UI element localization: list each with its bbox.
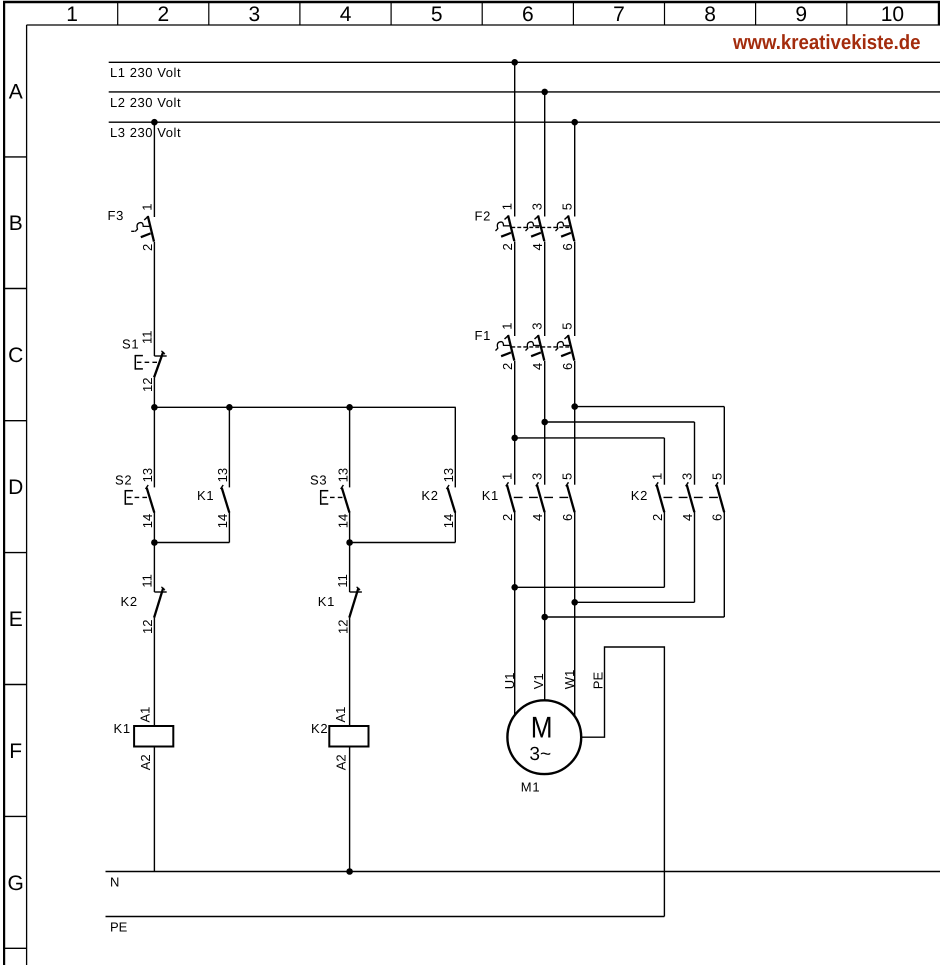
breaker F2 pole 2 — [526, 216, 545, 242]
motor M1 — [507, 700, 581, 774]
svg-text:F: F — [9, 740, 22, 763]
svg-text:1: 1 — [500, 322, 515, 329]
node W1 merge — [571, 599, 578, 606]
wire S1 to node rail — [153, 377, 155, 407]
svg-text:4: 4 — [680, 514, 695, 521]
svg-text:B: B — [9, 212, 23, 235]
svg-text:14: 14 — [441, 514, 456, 528]
svg-text:11: 11 — [335, 574, 350, 588]
wire F1 to K1 pole 2 — [544, 361, 546, 485]
wire F3 to S1 — [153, 242, 155, 356]
svg-text:7: 7 — [613, 3, 625, 26]
node phase2 branch — [541, 419, 548, 426]
row divider F/G — [5, 815, 27, 817]
wire merge rail S2/K1aux — [154, 542, 229, 544]
node phase3 branch — [571, 403, 578, 410]
actuator of S1 — [135, 355, 159, 370]
wire F1 to K1 pole 1 — [514, 361, 516, 485]
header divider 2|3 — [208, 3, 210, 26]
wire K2 pole3 down — [723, 512, 725, 617]
row divider B/C — [5, 288, 27, 290]
svg-text:F2: F2 — [475, 208, 492, 223]
svg-text:2: 2 — [500, 514, 515, 521]
NC interlock contact K1 — [349, 587, 362, 618]
wire L1 to F2 pole 1 — [514, 62, 516, 216]
wire S3 to merge node — [349, 512, 351, 542]
svg-text:K2: K2 — [121, 594, 138, 609]
border frame top — [3, 1, 940, 4]
wire control distribution rail — [154, 406, 455, 408]
row divider C/D — [5, 420, 27, 422]
node at S2 branch — [151, 404, 158, 411]
node K2 coil on N rail — [346, 868, 353, 875]
row-letter column rule — [26, 25, 28, 965]
svg-text:PE: PE — [110, 920, 128, 935]
main contact K1 pole 3 — [566, 482, 575, 512]
svg-text:www.kreativekiste.de: www.kreativekiste.de — [732, 31, 920, 54]
wire interlock to K2 coil — [349, 618, 351, 726]
svg-text:A1: A1 — [138, 707, 153, 723]
wire rail to K2 aux contact — [454, 407, 456, 487]
wire rail L2 — [109, 91, 940, 93]
svg-text:A: A — [9, 81, 23, 104]
wire K1 coil to N — [153, 747, 155, 872]
header divider 3|4 — [299, 3, 301, 26]
wire K2 pole2 down — [694, 512, 696, 602]
svg-text:2: 2 — [500, 243, 515, 250]
svg-text:M: M — [531, 712, 553, 745]
svg-text:2: 2 — [140, 244, 155, 251]
header divider 6|7 — [572, 3, 574, 26]
node S3/K2aux merge — [346, 539, 353, 546]
svg-text:K1: K1 — [197, 488, 214, 503]
NO pushbutton S2 (start K1) — [146, 485, 155, 513]
svg-text:10: 10 — [881, 3, 904, 26]
node phase1 branch — [511, 435, 518, 442]
svg-text:14: 14 — [335, 514, 350, 528]
wire rail to S2 — [153, 407, 155, 487]
svg-text:K2: K2 — [311, 721, 328, 736]
wire K1 aux down — [228, 512, 230, 542]
node U1 merge — [511, 584, 518, 591]
wire interlock to K1 coil — [153, 618, 155, 726]
row divider A/B — [5, 156, 27, 158]
svg-text:8: 8 — [704, 3, 716, 26]
svg-text:13: 13 — [215, 468, 230, 482]
breaker F1 pole 2 — [526, 335, 545, 361]
main contact K2 pole 2 — [686, 482, 695, 512]
NO pushbutton S3 (start K2) — [341, 485, 350, 513]
svg-text:6: 6 — [560, 363, 575, 370]
svg-text:1: 1 — [500, 203, 515, 210]
wire rail L1 — [109, 61, 940, 63]
svg-text:A2: A2 — [333, 754, 348, 770]
wire merge to K1 interlock — [349, 543, 351, 593]
main contact K1 pole 1 — [506, 482, 515, 512]
svg-text:K1: K1 — [114, 721, 131, 736]
main contact K1 pole 2 — [536, 482, 545, 512]
wire S2 to merge node — [153, 512, 155, 542]
svg-text:PE: PE — [591, 672, 606, 690]
svg-text:S3: S3 — [310, 473, 327, 488]
node V1 merge — [541, 614, 548, 621]
main contact K2 pole 3 — [715, 482, 724, 512]
svg-text:13: 13 — [335, 468, 350, 482]
svg-text:3: 3 — [680, 473, 695, 480]
wire down to K2 pole 2 — [694, 422, 696, 485]
svg-text:A1: A1 — [333, 707, 348, 723]
wire rail to K1 aux contact — [228, 407, 230, 487]
svg-text:6: 6 — [710, 514, 725, 521]
wire merge to K2 interlock — [153, 543, 155, 593]
svg-text:W1: W1 — [562, 670, 577, 690]
svg-text:K2: K2 — [421, 488, 438, 503]
svg-text:2: 2 — [650, 514, 665, 521]
wire down to K2 pole 3 — [723, 407, 725, 485]
svg-text:6: 6 — [560, 243, 575, 250]
wire K2 pole2 to W1 — [575, 601, 695, 603]
svg-text:5: 5 — [431, 3, 443, 26]
svg-text:13: 13 — [441, 468, 456, 482]
svg-text:5: 5 — [560, 322, 575, 329]
wire K1 pole3 to motor W1 — [574, 512, 576, 717]
wire K1 pole2 to motor V1 — [544, 512, 546, 701]
svg-text:E: E — [9, 608, 23, 631]
svg-text:S2: S2 — [115, 473, 132, 488]
svg-text:1: 1 — [649, 473, 664, 480]
svg-text:3: 3 — [530, 473, 545, 480]
wire motor PE — [581, 647, 664, 917]
svg-text:12: 12 — [140, 620, 155, 634]
svg-text:5: 5 — [709, 473, 724, 480]
svg-text:6: 6 — [560, 514, 575, 521]
row divider E/F — [5, 684, 27, 686]
svg-text:2: 2 — [157, 3, 169, 26]
svg-text:14: 14 — [215, 514, 230, 528]
mechanical coupling K1 — [514, 496, 572, 498]
svg-text:12: 12 — [335, 620, 350, 634]
wire rail to S3 — [349, 407, 351, 487]
wire rail PE — [106, 916, 665, 918]
wire merge rail S3/K2aux — [350, 542, 456, 544]
wire F1 to K1 pole 3 — [574, 361, 576, 485]
svg-text:9: 9 — [795, 3, 807, 26]
mechanical coupling F2 — [511, 226, 571, 228]
wire rail L3 — [109, 121, 940, 123]
svg-text:K1: K1 — [318, 594, 335, 609]
node L3 tap for control circuit — [151, 119, 158, 126]
node S2/K1aux merge — [151, 539, 158, 546]
NC interlock contact K2 — [154, 587, 167, 618]
svg-text:M1: M1 — [521, 780, 540, 795]
svg-text:1: 1 — [139, 203, 154, 210]
svg-text:L1 230 Volt: L1 230 Volt — [110, 65, 181, 80]
wire K2 coil to N — [349, 747, 351, 872]
node at S3 branch — [346, 404, 353, 411]
header divider 8|9 — [755, 3, 757, 26]
svg-text:C: C — [8, 344, 23, 367]
NC pushbutton S1 (stop) — [154, 351, 167, 378]
svg-text:4: 4 — [530, 514, 545, 521]
wire F2 to F1 pole 1 — [514, 241, 516, 336]
breaker F3 — [131, 216, 154, 242]
svg-text:3~: 3~ — [529, 744, 551, 765]
svg-text:K1: K1 — [482, 488, 499, 503]
wire L3 to F3 — [153, 122, 155, 217]
svg-text:11: 11 — [140, 331, 155, 345]
NO auxiliary contact K1 (self-hold) — [221, 485, 230, 513]
node L3 tap — [571, 119, 578, 126]
svg-text:1: 1 — [500, 473, 515, 480]
mechanical coupling K2 — [664, 496, 722, 498]
wire L2 to F2 pole 2 — [544, 92, 546, 217]
svg-text:13: 13 — [140, 468, 155, 482]
svg-text:F1: F1 — [475, 328, 492, 343]
svg-text:A2: A2 — [138, 754, 153, 770]
wire phase3 to K2 pole 3 — [575, 406, 725, 408]
border frame left — [3, 1, 5, 965]
svg-text:3: 3 — [249, 3, 261, 26]
wire K2 pole1 down — [663, 512, 665, 587]
header divider 5|6 — [481, 3, 483, 26]
wire F2 to F1 pole 2 — [544, 241, 546, 336]
actuator of S3 — [320, 490, 345, 505]
breaker F2 pole 3 — [556, 216, 575, 242]
svg-text:4: 4 — [340, 3, 352, 26]
svg-text:5: 5 — [560, 473, 575, 480]
svg-text:D: D — [8, 476, 23, 499]
svg-text:1: 1 — [66, 3, 78, 26]
breaker F1 pole 3 — [556, 335, 575, 361]
contactor coil K1 — [134, 726, 173, 747]
svg-text:14: 14 — [140, 514, 155, 528]
svg-text:12: 12 — [140, 378, 155, 392]
svg-text:L3 230 Volt: L3 230 Volt — [110, 125, 181, 140]
svg-text:4: 4 — [530, 243, 545, 250]
wire K2 pole3 to V1 — [545, 616, 725, 618]
header bottom rule — [27, 24, 940, 26]
row divider D/E — [5, 552, 27, 554]
wire K2 aux down — [454, 512, 456, 542]
svg-text:2: 2 — [500, 363, 515, 370]
wire K1 pole1 to motor U1 — [514, 512, 516, 716]
node at K1 aux branch — [226, 404, 233, 411]
svg-text:V1: V1 — [531, 673, 546, 689]
wire phase1 to K2 pole 1 — [515, 437, 665, 439]
header divider 1|2 — [117, 3, 119, 26]
NO auxiliary contact K2 (self-hold) — [446, 485, 455, 513]
svg-text:N: N — [110, 875, 119, 890]
breaker F2 pole 1 — [496, 216, 515, 242]
svg-text:G: G — [8, 872, 24, 895]
svg-text:3: 3 — [530, 322, 545, 329]
header divider 4|5 — [390, 3, 392, 26]
actuator of S2 — [125, 490, 151, 505]
svg-text:5: 5 — [560, 203, 575, 210]
svg-text:U1: U1 — [502, 673, 517, 690]
wire K2 pole1 to U1 — [515, 586, 665, 588]
border frame right (header) — [938, 1, 940, 26]
svg-text:F3: F3 — [108, 208, 125, 223]
breaker F1 pole 1 — [496, 335, 515, 361]
svg-text:K2: K2 — [631, 488, 648, 503]
svg-text:11: 11 — [140, 574, 155, 588]
main contact K2 pole 1 — [656, 482, 665, 512]
node L2 tap — [541, 89, 548, 96]
wire phase2 to K2 pole 2 — [545, 421, 695, 423]
header divider 7|8 — [664, 3, 666, 26]
node L1 tap — [511, 59, 518, 66]
svg-text:S1: S1 — [122, 336, 139, 351]
wire L3 to F2 pole 3 — [574, 122, 576, 216]
wire down to K2 pole 1 — [663, 438, 665, 485]
svg-text:4: 4 — [530, 363, 545, 370]
header divider 9|10 — [846, 3, 848, 26]
wire F2 to F1 pole 3 — [574, 241, 576, 336]
contactor coil K2 — [329, 726, 368, 747]
mechanical coupling F1 — [511, 346, 571, 348]
svg-text:3: 3 — [530, 203, 545, 210]
wire rail N — [106, 871, 940, 873]
row divider G/H — [5, 947, 27, 949]
svg-text:6: 6 — [522, 3, 534, 26]
svg-text:L2 230 Volt: L2 230 Volt — [110, 95, 181, 110]
